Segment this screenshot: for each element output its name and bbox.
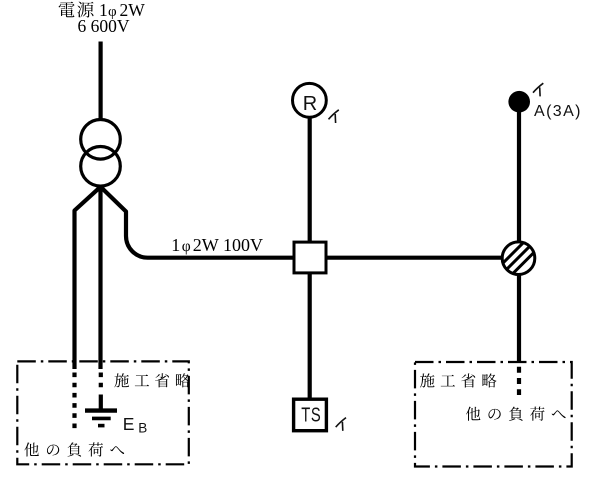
wire: outlet box to timer switch TS: [308, 274, 312, 398]
wire: ground stub: [99, 395, 103, 410]
wire: dashed continuation into right omission box: [517, 367, 521, 395]
svg-text:B: B: [138, 421, 147, 436]
svg-text:6 600V: 6 600V: [78, 16, 130, 36]
wire: secondary middle (grounded neutral) conductor: [98, 187, 102, 369]
label: 施工省略 (left): [114, 373, 190, 387]
automatic switch 3A terminal (filled circle): [508, 91, 530, 113]
svg-text:TS: TS: [301, 403, 321, 426]
label: イ (circuit i) at lamp receptacle: [329, 110, 339, 120]
ground electrode EB (earth symbol): [85, 411, 117, 426]
wire: outlet box to VVF joint box horizontal run: [328, 256, 504, 260]
svg-text:2W 100V: 2W 100V: [193, 235, 263, 255]
label: イ at automatic switch: [533, 83, 543, 93]
svg-text:1: 1: [171, 235, 180, 255]
wire: secondary left conductor: [75, 187, 101, 369]
svg-text:φ: φ: [182, 238, 191, 255]
wire: secondary left conductor dashed continuation: [72, 373, 76, 431]
transformer T (1φ2W 6600/110V): [81, 120, 121, 187]
svg-text:A(3A): A(3A): [534, 103, 582, 120]
wire: joint box down to omitted works: [517, 275, 521, 363]
label: 施工省略 (right): [420, 373, 497, 387]
wire: lamp receptacle to outlet box: [308, 118, 312, 243]
svg-text:R: R: [303, 93, 317, 115]
VVF joint box (hatched circle): [497, 226, 550, 283]
lamp receptacle R (circle-R symbol): [293, 83, 327, 117]
wire: automatic switch to joint box: [517, 111, 521, 242]
label: 電源 1φ2W: [59, 0, 146, 20]
right omission box (施工省略, dash-dot border): [415, 362, 572, 467]
timer switch TS (square box): [294, 399, 327, 431]
label: イ at timer switch: [336, 418, 346, 428]
label: 他の負荷へ (left): [24, 442, 124, 456]
wire: 6600V feeder from source: [98, 42, 102, 121]
svg-text:E: E: [123, 414, 135, 434]
wire: neutral dashed continuation: [99, 373, 103, 391]
left omission box (施工省略, dash-dot border): [17, 361, 189, 464]
label: 1φ2W 100V: [171, 235, 263, 255]
label: 他の負荷へ (right): [466, 407, 566, 421]
outlet box (square junction box): [294, 242, 326, 273]
wire: secondary hot conductor, curves to 100V horizontal run: [101, 187, 293, 258]
